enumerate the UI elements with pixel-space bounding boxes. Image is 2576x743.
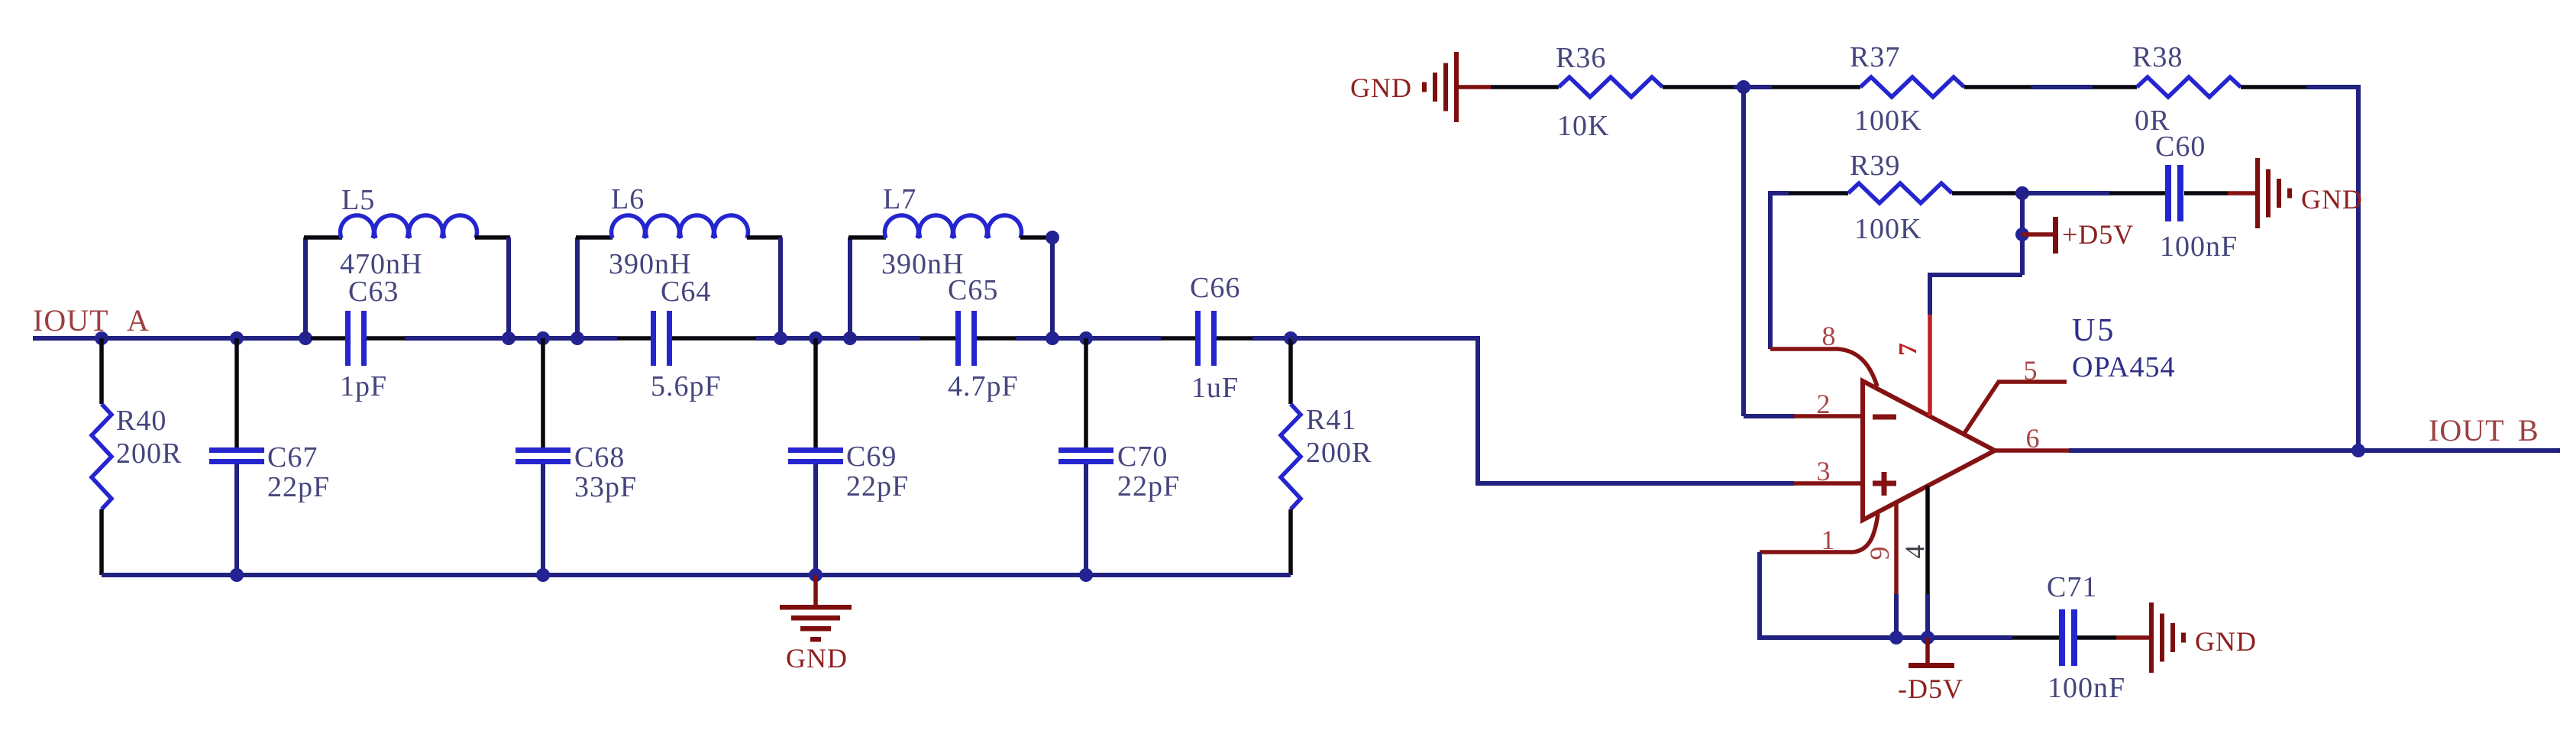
- svg-text:-D5V: -D5V: [1898, 674, 1964, 704]
- inductor L7: [848, 237, 852, 338]
- wire: bus C66-R41: [1252, 336, 1291, 341]
- svg-text:GND: GND: [1350, 73, 1412, 103]
- capacitor C65: [920, 336, 955, 341]
- svg-text:100nF: 100nF: [2048, 672, 2125, 704]
- node: L5 right: [502, 331, 516, 345]
- svg-text:100nF: 100nF: [2160, 231, 2238, 263]
- svg-text:L6: L6: [611, 183, 645, 215]
- wire: right rail down: [2356, 86, 2361, 450]
- node: C68 bottom: [536, 568, 550, 582]
- resistor R40: [99, 338, 104, 404]
- op-amp pin 9: [1894, 502, 1899, 594]
- svg-text:200R: 200R: [116, 438, 182, 470]
- wire: R36-junction: [1663, 85, 1734, 89]
- capacitor C67: [234, 338, 239, 447]
- node: L5 left: [299, 331, 312, 345]
- capacitor C70: [1084, 338, 1088, 447]
- svg-text:IOUT: IOUT: [33, 303, 109, 338]
- svg-text:R37: R37: [1850, 41, 1900, 73]
- resistor R37: [1860, 77, 1964, 97]
- svg-text:C66: C66: [1190, 272, 1240, 304]
- svg-text:L7: L7: [883, 183, 916, 215]
- op-amp pin 1: [1760, 514, 1878, 552]
- wire: gnd-R36 lead: [1491, 85, 1559, 89]
- ground GND (filter): [813, 575, 818, 607]
- node: C70 bottom: [1079, 568, 1093, 582]
- wire: op-amp out to IOUT_B: [2069, 448, 2560, 453]
- wire: +5V to pin7: [1930, 275, 2022, 315]
- svg-text:U5: U5: [2072, 313, 2115, 348]
- node: IOUT_A junction: [95, 331, 108, 345]
- svg-text:7: 7: [1894, 342, 1922, 356]
- svg-text:R36: R36: [1556, 42, 1606, 74]
- svg-text:C65: C65: [948, 274, 998, 306]
- svg-text:6: 6: [2026, 423, 2041, 454]
- svg-text:R40: R40: [116, 405, 166, 437]
- svg-text:4.7pF: 4.7pF: [948, 370, 1019, 402]
- capacitor C64: [617, 336, 651, 341]
- wire: R39 left lead: [1789, 191, 1848, 195]
- node: pin4 bottom: [1921, 631, 1934, 644]
- wire: R38 to right rail: [2241, 85, 2306, 89]
- wire: pin8 riser: [1768, 191, 1773, 349]
- capacitor C68: [541, 338, 545, 447]
- svg-text:200R: 200R: [1306, 437, 1372, 469]
- wire: filter to op-amp +in: [1291, 338, 1794, 483]
- svg-text:GND: GND: [2195, 626, 2257, 657]
- node: feedback junction: [2351, 444, 2365, 457]
- svg-text:22pF: 22pF: [846, 470, 909, 502]
- ground GND (C71): [2149, 602, 2154, 673]
- svg-text:C64: C64: [661, 276, 711, 308]
- wire: junction-R37 lead: [1772, 85, 1860, 89]
- svg-text:GND: GND: [2301, 184, 2363, 215]
- svg-text:R41: R41: [1306, 404, 1356, 436]
- svg-text:4: 4: [1899, 544, 1930, 559]
- op-amp U5 body: [1863, 381, 1995, 520]
- node: C67 bottom: [230, 568, 244, 582]
- svg-text:OPA454: OPA454: [2072, 351, 2176, 383]
- svg-text:C70: C70: [1117, 441, 1168, 473]
- resistor R39: [1848, 183, 1952, 203]
- svg-text:R39: R39: [1850, 150, 1900, 182]
- node: pin9 bottom: [1889, 631, 1903, 644]
- node: L7 left: [843, 331, 857, 345]
- wire: bus C64-L6R: [756, 336, 850, 341]
- node: L6 left: [570, 331, 584, 345]
- op-amp pin 5: [1964, 382, 2067, 434]
- svg-text:C68: C68: [574, 441, 625, 473]
- wire: C71 right lead: [2077, 635, 2116, 640]
- capacitor C69: [813, 338, 818, 447]
- wire: +5V node vertical: [2020, 193, 2025, 275]
- resistor R38: [2137, 77, 2241, 97]
- node: C69 bottom / gnd: [809, 568, 823, 582]
- svg-text:5.6pF: 5.6pF: [651, 370, 722, 402]
- svg-text:L5: L5: [341, 184, 375, 216]
- svg-text:C63: C63: [348, 276, 399, 308]
- op-amp plus sign: [1873, 481, 1896, 486]
- resistor R41: [1288, 338, 1293, 404]
- node: R41 top: [1284, 331, 1298, 345]
- capacitor C71: [2059, 609, 2065, 666]
- svg-text:1: 1: [1821, 525, 1836, 555]
- wire: C71 left lead: [2012, 635, 2059, 640]
- wire: bus C63-L5R: [405, 336, 509, 341]
- wire: bus C65-C66: [1016, 336, 1161, 341]
- node: C67 top: [230, 331, 244, 345]
- power -D5V: [1925, 638, 1930, 663]
- node: C69 top: [809, 331, 823, 345]
- svg-text:+D5V: +D5V: [2062, 219, 2134, 250]
- svg-text:5: 5: [2024, 355, 2038, 386]
- node: R39/C60 junction: [2015, 186, 2029, 200]
- inductor L5: [303, 237, 308, 338]
- node: L7 top right: [1046, 231, 1059, 244]
- op-amp pin 7: [1928, 315, 1932, 416]
- svg-text:22pF: 22pF: [1117, 470, 1180, 502]
- svg-text:9: 9: [1864, 546, 1895, 560]
- svg-text:10K: 10K: [1557, 110, 1609, 142]
- inductor L6: [575, 237, 580, 338]
- wire: -in riser: [1741, 87, 1746, 416]
- svg-text:B: B: [2518, 413, 2539, 447]
- capacitor C66: [1161, 336, 1195, 341]
- node: C70 top: [1079, 331, 1093, 345]
- node: L7 right: [1046, 331, 1059, 345]
- ground GND (C60): [2255, 158, 2260, 228]
- wire: pin1 to -5V rail: [1760, 552, 2012, 638]
- op-amp pin 8: [1770, 349, 1877, 386]
- svg-text:C69: C69: [846, 441, 897, 473]
- wire: C60 right lead: [2184, 191, 2228, 195]
- capacitor C63: [311, 336, 345, 341]
- svg-text:C71: C71: [2047, 571, 2097, 603]
- wire: IOUT_A stub: [33, 336, 102, 341]
- node: +D5V tap: [2015, 228, 2029, 241]
- op-amp pin 6: [1993, 448, 2069, 453]
- svg-text:100K: 100K: [1854, 213, 1921, 245]
- op-amp pin 3: [1794, 481, 1863, 486]
- svg-text:A: A: [127, 303, 150, 338]
- resistor R36: [1559, 77, 1663, 97]
- wire: R39 right lead: [1952, 191, 2022, 195]
- wire: R37-R38: [1964, 85, 2031, 89]
- svg-text:1pF: 1pF: [340, 370, 387, 402]
- svg-text:C67: C67: [267, 441, 318, 473]
- wire: bus L5R-L6L: [509, 336, 617, 341]
- svg-text:22pF: 22pF: [267, 471, 330, 503]
- node: R36/R37 junction: [1737, 80, 1750, 94]
- svg-text:IOUT: IOUT: [2429, 413, 2505, 447]
- wire: bus L7L-C65: [850, 336, 920, 341]
- svg-text:GND: GND: [786, 643, 848, 674]
- node: C68 top: [536, 331, 550, 345]
- wire: main bus seg1: [102, 336, 311, 341]
- capacitor C60: [2165, 165, 2171, 221]
- wire: bottom bus: [102, 573, 1291, 577]
- svg-text:C60: C60: [2155, 131, 2206, 163]
- ground GND (top left): [1454, 52, 1459, 122]
- svg-text:33pF: 33pF: [574, 471, 637, 503]
- op-amp minus sign: [1873, 415, 1896, 420]
- op-amp pin 4: [1925, 486, 1930, 594]
- svg-text:1uF: 1uF: [1191, 372, 1239, 404]
- node: L6 right: [774, 331, 787, 345]
- op-amp pin 2: [1794, 414, 1863, 418]
- svg-text:2: 2: [1817, 389, 1831, 419]
- svg-text:100K: 100K: [1854, 105, 1921, 137]
- svg-text:3: 3: [1817, 456, 1831, 486]
- wire: C60 left lead: [2022, 191, 2109, 195]
- power +D5V: [2022, 232, 2053, 237]
- svg-text:R38: R38: [2132, 41, 2183, 73]
- svg-text:8: 8: [1822, 321, 1837, 351]
